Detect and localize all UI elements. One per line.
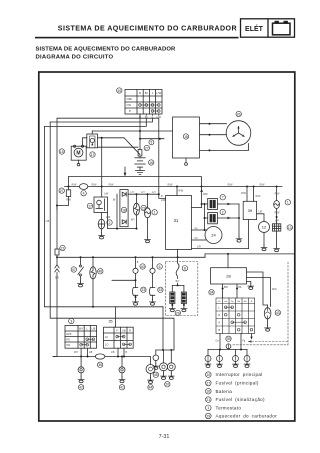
table 35 feed from link: [115, 307, 117, 327]
wire bottom row: [53, 357, 151, 365]
svg-text:Gy: Gy: [195, 227, 199, 230]
bus2 right: [205, 253, 294, 255]
main switch S1 grid: [125, 90, 162, 115]
svg-text:28: 28: [226, 274, 231, 279]
svg-text:R/W: R/W: [275, 212, 280, 215]
svg-text:R/W: R/W: [241, 192, 246, 195]
svg-text:R/W: R/W: [109, 183, 114, 186]
svg-text:Sb: Sb: [244, 301, 247, 303]
flexible lead squiggle: [176, 263, 179, 279]
svg-text:W/G: W/G: [272, 288, 277, 291]
svg-text:2: 2: [109, 221, 111, 225]
svg-text:Br: Br: [113, 199, 116, 202]
svg-text:W/Y: W/Y: [74, 352, 79, 354]
label 47: [71, 267, 76, 272]
joint bar: [208, 349, 247, 351]
svg-text:L/R: L/R: [275, 220, 279, 223]
wire H1 L/W: [57, 118, 166, 209]
svg-text:24: 24: [211, 233, 216, 238]
table 3 grid: [65, 326, 97, 349]
svg-text:N: N: [218, 313, 220, 317]
svg-text:1: 1: [154, 211, 156, 215]
table 35 bottom stubs: [117, 348, 119, 356]
label 23: [141, 287, 146, 292]
svg-text:B/Y: B/Y: [131, 219, 135, 222]
svg-text:DIAGRAMA DO CIRCUITO: DIAGRAMA DO CIRCUITO: [36, 55, 114, 61]
wire phase 1: [200, 123, 227, 125]
label 18 rectifier: [183, 134, 188, 139]
svg-text:ELÉT: ELÉT: [245, 24, 264, 33]
table 3 headers: [79, 328, 96, 331]
lamp 43: [264, 308, 271, 319]
wire heater T split: [177, 283, 179, 285]
svg-text:16: 16: [206, 390, 210, 394]
carburetor heater 13: [272, 224, 280, 231]
tail lamp grounds: [163, 371, 165, 374]
circle 24: [205, 227, 222, 244]
wire rail x57: [56, 206, 58, 250]
label 18 diode unit: [121, 207, 126, 212]
svg-text:6: 6: [159, 265, 161, 269]
label 45: [153, 372, 158, 377]
connector 36 oval: [95, 354, 105, 359]
svg-text:M: M: [76, 151, 80, 157]
svg-text:27: 27: [145, 146, 149, 150]
connector cell contacts: [224, 306, 252, 331]
label 21 fuse signal: [60, 245, 65, 250]
diagram frame: [39, 72, 295, 421]
svg-text:9: 9: [151, 141, 153, 145]
label 29 heater assy: [175, 310, 180, 315]
dashed stub with arrow: [249, 341, 289, 343]
table 35 grid: [104, 327, 134, 348]
wire bus to thermostat: [276, 187, 278, 201]
wire box31 pin Ch: [192, 239, 207, 241]
svg-text:ON: ON: [127, 103, 131, 107]
svg-text:OFF: OFF: [127, 97, 133, 101]
wire upper link y176.5: [69, 177, 202, 187]
svg-text:35: 35: [109, 320, 113, 324]
diode unit box: [120, 190, 128, 227]
node on rail x57: [56, 205, 58, 207]
svg-text:A: A: [218, 320, 220, 324]
wire socket33 ground: [152, 295, 154, 299]
wire bus2 to box28: [227, 254, 229, 268]
label 4 connector: [81, 191, 86, 196]
svg-text:OFF: OFF: [66, 332, 72, 336]
svg-text:1: 1: [287, 201, 289, 205]
svg-text:B: B: [161, 195, 163, 198]
bus2 jog: [204, 254, 206, 257]
wire ring down: [152, 273, 154, 287]
battery BT1: [135, 158, 145, 167]
wire bus2 down: [135, 257, 137, 268]
svg-text:R/W: R/W: [72, 183, 77, 186]
arrow fuse7 out: [227, 203, 231, 206]
label 13 heater: [287, 225, 292, 230]
connector ring: [150, 268, 155, 273]
svg-text:40: 40: [141, 265, 145, 269]
lamp 42: [80, 357, 82, 367]
svg-text:21: 21: [61, 246, 65, 250]
wire table30 right bottom arrow: [250, 334, 252, 340]
heater element R: [181, 292, 186, 304]
label 8: [182, 266, 187, 271]
wire H3 Br: [44, 119, 146, 127]
svg-text:47: 47: [72, 268, 76, 272]
svg-text:W/Y: W/Y: [79, 328, 84, 331]
heater element L: [170, 292, 175, 304]
svg-text:L/B: L/B: [46, 220, 50, 223]
wire relay top stub: [91, 131, 93, 134]
label 43: [275, 310, 280, 315]
wire bus2 to switch47: [80, 257, 82, 265]
earth grounds: [205, 362, 211, 368]
wire battery link right: [140, 138, 164, 140]
lamp 45: [155, 350, 157, 355]
wire relay output down to bus: [101, 138, 103, 187]
battery icon in tab: [273, 21, 291, 35]
wire sensor down to link: [92, 279, 94, 307]
wire relay to motor: [83, 138, 87, 146]
svg-text:Dg: Dg: [231, 301, 235, 303]
wire fuse7 out: [217, 203, 239, 205]
svg-text:R/W: R/W: [256, 195, 261, 198]
wire box31 pin L/R: [192, 220, 249, 249]
svg-text:L: L: [87, 328, 89, 331]
wire fuse2 out: [217, 217, 239, 219]
svg-text:4: 4: [83, 192, 85, 196]
label 3: [69, 318, 74, 323]
svg-text:18: 18: [184, 135, 188, 139]
svg-text:33: 33: [159, 288, 163, 292]
svg-text:12: 12: [262, 225, 267, 230]
label 20: [165, 382, 170, 387]
label 40: [140, 264, 145, 269]
fuse F21 signal: [55, 249, 59, 255]
svg-text:L: L: [152, 91, 154, 95]
wire box31 top stub: [176, 187, 178, 196]
wire fuse21 to bus2: [56, 255, 58, 265]
svg-text:23: 23: [142, 288, 146, 292]
wire left rail of diode unit: [116, 194, 118, 228]
label 34: [209, 290, 214, 295]
wire box31 pin Gy: [192, 229, 208, 231]
wire thermostat to heater: [276, 209, 278, 224]
component 2 (sensor): [98, 219, 105, 229]
svg-text:Ch: Ch: [195, 237, 199, 240]
svg-text:Fusível (principal): Fusível (principal): [216, 381, 259, 386]
svg-text:36: 36: [98, 363, 102, 367]
label 42: [78, 385, 83, 390]
wire switch47 ground: [80, 276, 82, 281]
label 17 relay: [90, 152, 95, 157]
wire H2 L: [50, 119, 152, 122]
wire phase 3: [200, 144, 249, 151]
wire corner link to bus: [68, 177, 70, 187]
wire thermoB to ground: [147, 218, 149, 237]
label 27 fuse: [59, 188, 64, 193]
label 1 thermostato: [152, 210, 157, 215]
label 22 thermo: [141, 205, 146, 210]
svg-text:31: 31: [174, 218, 179, 223]
heater grounds: [171, 304, 173, 306]
box 28: [211, 268, 247, 284]
earth connectors: [205, 356, 250, 362]
connector chevrons on x57: [55, 265, 59, 272]
svg-text:L: L: [218, 305, 220, 309]
switch column stubs: [140, 114, 159, 115]
svg-text:L/Y: L/Y: [141, 191, 145, 194]
wire rail x201.6: [201, 187, 203, 208]
svg-text:PO: PO: [66, 337, 70, 341]
header rule: [35, 37, 239, 39]
svg-text:L/W: L/W: [156, 91, 161, 95]
svg-text:B: B: [129, 329, 131, 332]
thermo unit B: [147, 194, 149, 208]
wire heater to ground: [276, 231, 278, 246]
svg-text:Br: Br: [145, 91, 148, 95]
label 6: [157, 264, 162, 269]
svg-text:B: B: [137, 261, 139, 264]
svg-text:44: 44: [149, 386, 153, 390]
wire rail V1: [44, 126, 163, 306]
svg-text:45: 45: [154, 373, 158, 377]
bus wire labels R/W: [72, 183, 265, 186]
svg-text:34: 34: [210, 291, 214, 295]
label 27 fuse main: [144, 145, 149, 150]
svg-text:27: 27: [206, 381, 210, 385]
wire fuse down left: [57, 197, 69, 206]
wire feeds: [162, 307, 164, 350]
wire bus2 down: [152, 257, 154, 268]
svg-text:13: 13: [288, 226, 292, 230]
svg-text:R/W: R/W: [168, 183, 173, 186]
wire fuse to battery: [139, 156, 141, 158]
fuse F7: [208, 198, 218, 209]
svg-text:39: 39: [248, 208, 253, 213]
svg-text:17: 17: [91, 153, 95, 157]
svg-text:L/B: L/B: [111, 352, 115, 354]
svg-text:46: 46: [98, 270, 102, 274]
svg-text:um: um: [224, 301, 227, 303]
table 3 bottom stubs: [80, 348, 82, 356]
svg-text:26: 26: [237, 112, 241, 116]
svg-text:27: 27: [60, 189, 64, 193]
switch wire colour labels: [139, 116, 162, 119]
connector grid: [216, 298, 255, 334]
wire link into node: [112, 279, 136, 281]
svg-text:29: 29: [206, 414, 210, 418]
svg-text:43: 43: [276, 311, 280, 315]
wire rail x239 to ground: [238, 204, 240, 236]
svg-text:R/W: R/W: [179, 190, 184, 193]
wire table30 bottom stubs: [219, 334, 221, 350]
label 16 battery: [149, 160, 154, 165]
thermo switch A: [136, 194, 138, 203]
main switch row labels: [127, 97, 133, 113]
svg-text:16: 16: [149, 161, 153, 165]
wire rail x204.5: [204, 204, 206, 230]
svg-text:B: B: [218, 328, 220, 332]
label 15 motor: [59, 149, 64, 154]
wire circle12 to ground: [263, 233, 265, 245]
svg-text:F: F: [116, 329, 118, 332]
svg-text:18: 18: [122, 208, 126, 212]
wire x57 to bottom row: [53, 273, 57, 357]
main switch P row contacts: [151, 110, 160, 113]
earth connector drops: [208, 350, 247, 356]
svg-text:R: R: [139, 91, 141, 95]
diode D1: [122, 192, 126, 196]
bus junction nodes: [101, 186, 278, 188]
connector row letters: [218, 305, 220, 332]
svg-text:17: 17: [88, 204, 92, 208]
connector header letters: [218, 301, 253, 303]
wire ring down: [135, 273, 137, 287]
label 2 fuse: [220, 209, 225, 214]
svg-text:Aquecedor do carburador: Aquecedor do carburador: [216, 414, 278, 419]
svg-text:P: P: [129, 109, 131, 113]
relay RL1: [87, 134, 98, 148]
wire bus2 into assembly: [177, 257, 179, 263]
svg-text:L/W: L/W: [104, 193, 109, 196]
svg-text:B: B: [251, 301, 253, 303]
connector C4 on bus: [79, 184, 87, 190]
svg-text:39: 39: [227, 337, 231, 341]
svg-text:L/Y: L/Y: [131, 191, 135, 194]
svg-text:Fusível (sinalização): Fusível (sinalização): [216, 397, 266, 402]
connector ring: [133, 268, 138, 273]
dashed enclosure: [166, 262, 198, 316]
svg-text:R/W: R/W: [260, 183, 265, 186]
table 35 headers: [116, 329, 131, 332]
wire relay bottom link: [98, 146, 139, 148]
label 26 magneto: [236, 111, 241, 116]
sensor oval: [90, 267, 96, 279]
wire box39 to circle12: [257, 214, 264, 222]
fuse F2: [208, 213, 218, 224]
svg-text:41: 41: [120, 386, 124, 390]
svg-text:R/W: R/W: [92, 183, 97, 186]
thermostat 1: [274, 201, 280, 209]
svg-text:10: 10: [206, 373, 210, 377]
wire thermoA down: [136, 215, 138, 229]
labels L/Y: [131, 191, 157, 194]
bus2 left: [57, 256, 205, 258]
svg-text:21: 21: [206, 398, 210, 402]
fuse F27a: [138, 150, 142, 157]
svg-text:ON: ON: [66, 343, 70, 347]
socket 23: [132, 288, 137, 296]
lamp 41: [121, 357, 123, 367]
main switch column headers: [139, 91, 162, 95]
wire relay to rectifier y131: [92, 130, 172, 132]
svg-text:B: B: [126, 352, 128, 354]
box 39: [243, 201, 256, 219]
svg-text:20: 20: [165, 383, 169, 387]
svg-text:L/B: L/B: [89, 352, 93, 354]
arrow drop onto link: [124, 167, 127, 177]
label 9 connector: [149, 140, 154, 145]
rectifier box: [173, 117, 200, 158]
wire stubs bus to box39: [246, 187, 248, 202]
wire box31 pin right y207.5: [192, 207, 202, 209]
label 41: [119, 385, 124, 390]
wire relay feed diagonal to battery: [124, 138, 140, 155]
svg-text:Fg: Fg: [243, 341, 246, 343]
table 3 row labels: [66, 332, 72, 347]
svg-text:L/W: L/W: [106, 216, 111, 219]
svg-text:3: 3: [70, 319, 72, 323]
label 17 relay2: [87, 203, 92, 208]
tail lamp double L: [163, 350, 165, 363]
label 7: [220, 195, 225, 200]
node bus2 left end: [56, 256, 58, 258]
motor M1: [71, 145, 86, 166]
wire link y228.6: [108, 213, 137, 229]
switch 47: [78, 265, 84, 276]
wire comp2 to ground: [101, 229, 103, 233]
diode D2: [122, 220, 126, 224]
svg-text:Ca: Ca: [216, 341, 220, 343]
wire relay right to diagonal: [98, 137, 125, 139]
svg-text:7-31: 7-31: [159, 434, 170, 440]
svg-text:Termostato: Termostato: [216, 405, 242, 410]
arrow fuse2 out: [227, 217, 231, 220]
battery ground: [139, 167, 141, 170]
wire bus to relay2: [101, 187, 103, 198]
svg-text:L/B: L/B: [92, 328, 96, 331]
wire socket23 ground: [135, 295, 137, 299]
arrow up on rail: [200, 189, 203, 193]
table 3 contacts: [80, 338, 95, 346]
label 44: [148, 385, 153, 390]
svg-text:29: 29: [176, 311, 180, 315]
svg-text:7: 7: [222, 196, 224, 200]
wire bus2 to sensor: [92, 257, 94, 267]
svg-text:B/L: B/L: [238, 287, 242, 289]
svg-text:42: 42: [79, 386, 83, 390]
svg-text:8: 8: [184, 267, 186, 271]
wire R column down: [139, 115, 141, 149]
wire box28 right leads: [247, 272, 268, 308]
wire L/Y row: [128, 193, 159, 195]
label 46: [98, 269, 103, 274]
svg-text:HI: HI: [105, 335, 108, 339]
ELET tab box: [241, 19, 295, 37]
circle 12: [259, 222, 270, 233]
wire box28 bottom stubs: [222, 284, 224, 298]
magneto windings Y: [232, 126, 245, 137]
svg-text:L/R: L/R: [197, 245, 201, 248]
label 2: [107, 220, 112, 225]
svg-text:Hb: Hb: [237, 301, 241, 303]
svg-text:Bateria: Bateria: [216, 389, 233, 394]
bus2 nodes: [80, 253, 230, 258]
svg-text:LO: LO: [105, 343, 108, 347]
wire cluster bar: [156, 349, 174, 351]
svg-text:L/R: L/R: [259, 211, 263, 214]
svg-text:SISTEMA DE AQUECIMENTO DO CARB: SISTEMA DE AQUECIMENTO DO CARBURADOR: [58, 25, 237, 33]
svg-text:1: 1: [207, 406, 209, 410]
box28 ground stub: [247, 282, 251, 284]
socket 33: [149, 288, 154, 296]
svg-text:L/Y: L/Y: [152, 191, 156, 194]
screw terminal: [226, 344, 231, 349]
fuse F27: [66, 190, 70, 197]
svg-text:15: 15: [60, 150, 64, 154]
